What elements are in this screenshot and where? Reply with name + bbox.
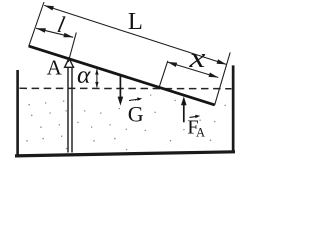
force FA arrow	[183, 100, 185, 123]
angle indicator alpha double arrow	[96, 69, 98, 87]
dimension line x	[167, 62, 218, 78]
svg-text:G: G	[128, 101, 144, 126]
svg-text:l: l	[55, 12, 67, 37]
arrowhead L right	[217, 59, 227, 64]
water surface dashed line	[20, 87, 232, 89]
arrowhead x right	[209, 73, 219, 78]
svg-text:A: A	[47, 56, 63, 80]
arrowhead L left	[44, 5, 54, 10]
extension line at pivot A	[68, 33, 76, 63]
tank left wall	[16, 70, 19, 157]
svg-text:x: x	[188, 42, 206, 73]
tank bottom	[15, 150, 235, 157]
dimension line l	[36, 28, 73, 37]
extension line at waterline point	[159, 61, 168, 89]
svg-text:L: L	[128, 8, 143, 35]
extension line at beam left end	[29, 2, 44, 46]
svg-text:A: A	[196, 126, 205, 140]
force G arrow	[119, 75, 121, 102]
tank right wall	[232, 65, 235, 152]
dimension line L	[44, 5, 226, 64]
water speckle dots	[26, 95, 226, 151]
arrowhead x left	[167, 62, 177, 67]
support post (double line)	[67, 67, 72, 152]
arrowhead l right	[63, 33, 73, 38]
extension line at beam right end	[215, 52, 231, 105]
svg-text:α: α	[77, 60, 91, 89]
beam (rod)	[29, 46, 215, 105]
support post open arrowhead at A	[65, 58, 74, 67]
arrowhead l left	[36, 28, 46, 33]
